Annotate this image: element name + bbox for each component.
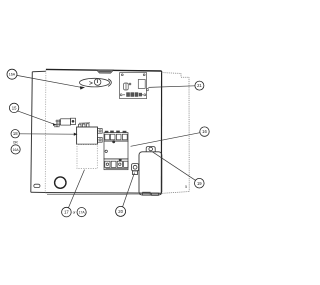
svg-text:17: 17 <box>64 210 69 215</box>
svg-text:16A: 16A <box>13 148 20 152</box>
svg-text:16A: 16A <box>9 73 16 77</box>
svg-text:OR: OR <box>13 140 18 144</box>
svg-text:18: 18 <box>13 131 18 136</box>
svg-text:17A: 17A <box>79 211 86 215</box>
svg-text:20: 20 <box>118 209 123 214</box>
svg-text:19: 19 <box>197 181 202 186</box>
svg-text:21: 21 <box>197 83 202 88</box>
svg-text:16: 16 <box>202 129 207 134</box>
svg-text:15: 15 <box>12 106 17 111</box>
